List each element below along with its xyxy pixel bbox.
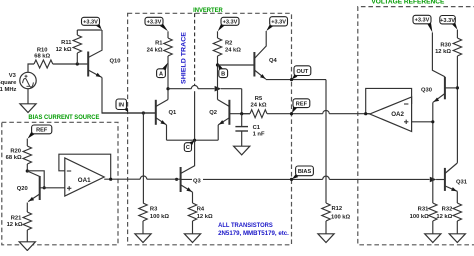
svg-text:INVERTER: INVERTER [193, 7, 223, 14]
junction OA1 output [109, 178, 112, 181]
transistor Q1 [155, 100, 157, 125]
power +3.3V R1 [160, 23, 168, 31]
op-amp OA1 [65, 158, 104, 196]
svg-text:R12: R12 [332, 206, 343, 212]
svg-text:Q4: Q4 [269, 58, 278, 64]
voltage reference section box [358, 7, 474, 245]
transistor Q4 [253, 52, 255, 77]
wire OUT line [266, 79, 326, 81]
hop A-line over shield [191, 85, 198, 88]
power +3.3V Q10 [96, 23, 102, 29]
junction node B Q4 base [216, 63, 219, 66]
power +3.3V Q30 [427, 22, 432, 32]
wire Q2 base to R5 node [229, 113, 250, 115]
svg-text:C1: C1 [253, 125, 261, 131]
wire OUT vertical to R12 [325, 80, 327, 203]
hop bias line over R31 rail [430, 177, 437, 183]
wire R10 to Q10 base [53, 63, 88, 65]
wire Q1 base [102, 112, 155, 114]
svg-text:R21: R21 [11, 216, 22, 222]
svg-text:R10: R10 [37, 47, 48, 53]
svg-text:+3.3V: +3.3V [147, 19, 162, 25]
svg-text:R1: R1 [155, 41, 163, 47]
resistor R1 [167, 31, 169, 38]
svg-text:+3.3V: +3.3V [83, 19, 98, 25]
ground V3 [20, 104, 36, 113]
node C [189, 141, 194, 146]
power +3.3V Q4 [266, 24, 273, 31]
svg-text:68 kΩ: 68 kΩ [6, 155, 22, 161]
resistor R10 [34, 60, 53, 68]
wire R20 to Q20 base node [27, 171, 44, 188]
svg-text:R30: R30 [440, 42, 451, 48]
resistor R3 [139, 203, 147, 221]
wire bias line mid [147, 178, 180, 180]
wire REF line [267, 113, 323, 115]
svg-text:OA1: OA1 [78, 177, 91, 184]
wire node A to Q2 base [168, 88, 191, 90]
svg-text:2N5179, MMBT5179, etc.: 2N5179, MMBT5179, etc. [218, 230, 289, 237]
ground R4 [184, 234, 200, 243]
svg-text:+3.3V: +3.3V [223, 19, 238, 25]
svg-text:Q3: Q3 [193, 178, 202, 184]
transistor Q20 [39, 176, 41, 200]
node BIAS [292, 174, 298, 179]
junction REF label [290, 112, 293, 115]
wire V3 top to R10 [28, 64, 34, 72]
svg-text:R3: R3 [150, 207, 158, 213]
ground R32 [449, 234, 465, 243]
resistor R12 [322, 203, 330, 221]
svg-text:Square: Square [0, 80, 17, 86]
svg-text:REF: REF [36, 128, 48, 134]
svg-text:V3: V3 [9, 73, 17, 79]
wire V3 bottom to ground [27, 89, 29, 104]
svg-text:REF: REF [296, 101, 308, 107]
ground R21 [19, 242, 35, 251]
svg-text:100 kΩ: 100 kΩ [331, 214, 351, 220]
wire IN to R3 [142, 113, 144, 203]
hop A-line over B rail [215, 86, 222, 92]
ground C1 [234, 146, 250, 155]
junction Q30 base [456, 86, 459, 89]
hop bias line over OUT wire [323, 176, 330, 179]
wire OA1 output [104, 178, 140, 180]
node REF bias box [28, 131, 35, 138]
svg-text:SHIELD TRACE: SHIELD TRACE [181, 31, 188, 84]
resistor R20 [26, 139, 28, 146]
svg-text:ALL TRANSISTORS: ALL TRANSISTORS [218, 222, 273, 229]
svg-text:BIAS: BIAS [298, 169, 312, 175]
hop REF line over OUT wire [323, 110, 330, 113]
wire Q30 emitter rail [432, 102, 434, 203]
svg-text:A: A [159, 71, 163, 77]
transistor Q31 [444, 168, 446, 191]
resistor R5 [242, 113, 250, 115]
svg-text:+3.3V: +3.3V [440, 18, 455, 24]
svg-text:OA2: OA2 [391, 111, 404, 118]
transistor Q10 [87, 52, 89, 77]
svg-text:IN: IN [118, 102, 124, 108]
svg-text:Q30: Q30 [421, 88, 432, 94]
svg-text:B: B [221, 71, 225, 77]
junction OUT label [290, 78, 293, 81]
svg-text:+3.3V: +3.3V [271, 19, 286, 25]
resistor R11 [76, 30, 78, 35]
shield trace dashed line [194, 13, 196, 86]
node IN [124, 108, 128, 113]
svg-text:Q2: Q2 [209, 110, 217, 116]
junction OA2 output [364, 112, 367, 115]
svg-text:Q20: Q20 [17, 186, 28, 192]
ground R3 [135, 234, 151, 243]
svg-text:100 kΩ: 100 kΩ [150, 214, 170, 220]
svg-text:Q1: Q1 [169, 110, 178, 116]
wire OA1 feedback loop [59, 154, 111, 179]
shield trace solid segment [194, 91, 196, 140]
transistor Q2 [228, 100, 230, 125]
svg-text:24 kΩ: 24 kΩ [251, 103, 267, 109]
node A [162, 63, 168, 71]
wire OA2 plus input [412, 121, 433, 123]
svg-text:24 kΩ: 24 kΩ [147, 48, 163, 54]
wire +3.3V rail top-left [77, 29, 102, 31]
resistor R4 [188, 203, 196, 221]
node REF [292, 106, 297, 113]
svg-text:68 kΩ: 68 kΩ [34, 54, 50, 60]
resistor R21 [23, 212, 31, 230]
inverter section box [128, 13, 292, 245]
junction R5 C1 [240, 112, 243, 115]
svg-text:R31: R31 [418, 207, 429, 213]
resistor R31 [429, 203, 437, 221]
svg-text:R11: R11 [61, 40, 72, 46]
svg-text:VOLTAGE REFERENCE: VOLTAGE REFERENCE [371, 0, 444, 6]
junction R20 Q20 [26, 169, 29, 172]
wire emitter join [167, 139, 219, 141]
node OUT [292, 74, 297, 79]
resistor R30 [456, 30, 458, 38]
svg-text:12 kΩ: 12 kΩ [7, 222, 23, 228]
svg-text:Q10: Q10 [110, 59, 121, 65]
power +3.3V R30 [452, 22, 458, 30]
resistor R2 [217, 31, 219, 38]
power +3.3V R2 [218, 23, 225, 31]
svg-text:12 kΩ: 12 kΩ [197, 214, 213, 220]
junction IN R3 [142, 111, 145, 114]
hop bias line over R3 wire [140, 176, 147, 179]
junction Q3 base [175, 178, 178, 181]
node B [218, 63, 223, 71]
svg-text:C: C [186, 145, 190, 151]
svg-text:R2: R2 [225, 41, 232, 47]
svg-text:R5: R5 [255, 96, 263, 102]
svg-text:12 kΩ: 12 kΩ [436, 214, 452, 220]
svg-text:1 nF: 1 nF [253, 132, 265, 138]
svg-text:Q31: Q31 [456, 180, 468, 186]
capacitor C1 [241, 114, 243, 127]
junction node C [193, 139, 196, 142]
op-amp OA2 [370, 97, 412, 132]
svg-text:R4: R4 [197, 207, 205, 213]
svg-text:OUT: OUT [296, 69, 308, 75]
junction R11 bottom [76, 62, 79, 65]
wire Q10 emitter to IN line [102, 78, 155, 114]
wire OA2 feedback loop [366, 88, 412, 113]
junction node A [166, 87, 169, 90]
junction BIAS label [290, 178, 293, 181]
label Q3 with mask [192, 176, 203, 183]
transistor Q3 [180, 167, 182, 192]
wire Q20 emitter to R21 [26, 203, 28, 213]
svg-text:1 MHz: 1 MHz [0, 87, 16, 93]
svg-text:24 kΩ: 24 kΩ [225, 48, 241, 54]
voltage source V3 [20, 72, 36, 88]
wire node C to Q3 collector [181, 140, 195, 173]
junction OA2 plus rail [431, 120, 434, 123]
resistor R32 [453, 203, 461, 221]
ground R31 [425, 234, 441, 243]
svg-text:+3.3V: +3.3V [415, 18, 430, 24]
svg-text:R32: R32 [442, 207, 453, 213]
ground R12 [318, 234, 334, 243]
transistor Q30 [444, 77, 446, 100]
svg-text:BIAS CURRENT SOURCE: BIAS CURRENT SOURCE [28, 114, 99, 121]
junction Q20 base [43, 186, 46, 189]
svg-text:100 kΩ: 100 kΩ [410, 214, 430, 220]
svg-text:12 kΩ: 12 kΩ [56, 47, 72, 53]
svg-text:12 kΩ: 12 kΩ [435, 49, 451, 55]
bias current source section box [2, 122, 118, 245]
svg-text:R20: R20 [10, 149, 21, 155]
